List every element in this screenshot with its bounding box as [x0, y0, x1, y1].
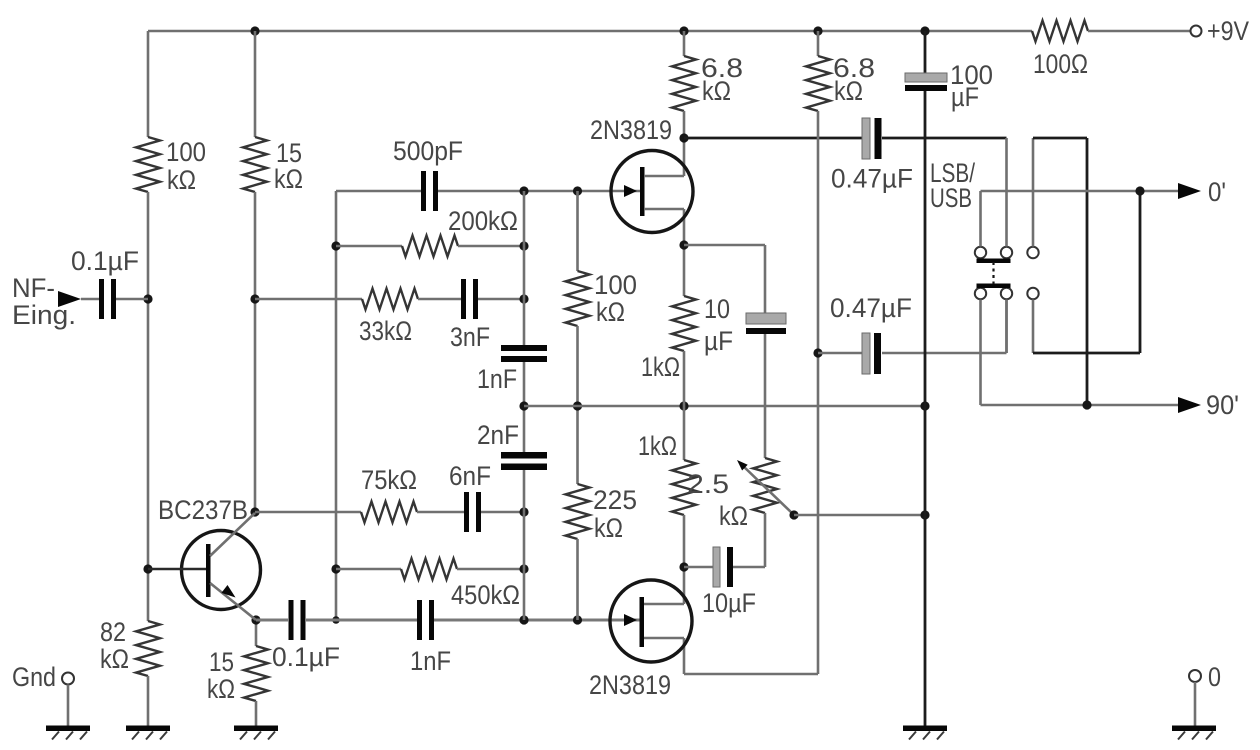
svg-text:kΩ: kΩ [834, 76, 863, 106]
svg-text:1nF: 1nF [410, 646, 451, 676]
svg-text:1kΩ: 1kΩ [641, 352, 680, 382]
svg-text:2nF: 2nF [477, 420, 519, 450]
svg-text:kΩ: kΩ [594, 513, 623, 543]
svg-text:82: 82 [100, 617, 126, 647]
svg-text:10µF: 10µF [702, 588, 756, 618]
svg-text:0.47µF: 0.47µF [831, 164, 913, 194]
svg-text:100: 100 [594, 270, 637, 300]
svg-text:BC237B: BC237B [158, 495, 248, 525]
svg-text:3nF: 3nF [450, 322, 490, 352]
svg-text:kΩ: kΩ [596, 297, 625, 327]
svg-text:100Ω: 100Ω [1033, 49, 1088, 79]
svg-text:2N3819: 2N3819 [589, 670, 671, 700]
svg-text:1kΩ: 1kΩ [638, 431, 677, 461]
svg-text:15: 15 [209, 647, 234, 677]
svg-text:kΩ: kΩ [207, 674, 235, 704]
svg-text:6nF: 6nF [449, 461, 491, 491]
svg-text:90': 90' [1206, 390, 1239, 420]
svg-text:225: 225 [593, 485, 637, 515]
svg-text:kΩ: kΩ [274, 164, 303, 194]
svg-text:0: 0 [1208, 662, 1221, 692]
svg-text:+9V: +9V [1207, 16, 1249, 46]
svg-text:Gnd: Gnd [12, 662, 56, 692]
svg-text:kΩ: kΩ [100, 644, 129, 674]
svg-text:Eing.: Eing. [12, 300, 76, 330]
svg-text:kΩ: kΩ [719, 501, 748, 531]
svg-text:µF: µF [704, 326, 733, 356]
svg-text:2.5: 2.5 [687, 469, 729, 499]
svg-text:75kΩ: 75kΩ [361, 465, 417, 495]
svg-text:USB: USB [930, 183, 972, 213]
svg-text:0.1µF: 0.1µF [71, 246, 139, 276]
svg-text:200kΩ: 200kΩ [448, 206, 518, 236]
svg-text:kΩ: kΩ [702, 76, 731, 106]
svg-text:33kΩ: 33kΩ [359, 316, 412, 346]
svg-text:2N3819: 2N3819 [590, 115, 672, 145]
svg-text:500pF: 500pF [393, 136, 463, 166]
svg-text:0.47µF: 0.47µF [830, 293, 912, 323]
svg-text:1nF: 1nF [477, 364, 517, 394]
svg-text:µF: µF [951, 82, 979, 112]
svg-text:450kΩ: 450kΩ [451, 580, 520, 610]
svg-text:kΩ: kΩ [167, 165, 196, 195]
svg-text:NF-: NF- [12, 273, 55, 303]
svg-text:0.1µF: 0.1µF [272, 642, 340, 672]
svg-text:0': 0' [1208, 177, 1226, 207]
svg-text:10: 10 [704, 294, 730, 324]
svg-text:100: 100 [166, 137, 206, 167]
